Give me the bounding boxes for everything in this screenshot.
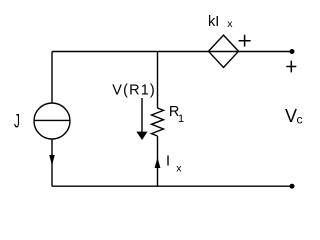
wire bottom rail — [52, 185, 292, 187]
wire left branch upper — [51, 52, 53, 104]
resistor R1 zigzag — [152, 108, 164, 136]
svg-text:V(R1): V(R1) — [112, 82, 156, 98]
dependent source diamond kIx — [209, 35, 239, 67]
wire middle branch lower — [157, 136, 159, 186]
wire middle branch upper — [157, 52, 159, 109]
node dot output top — [290, 49, 295, 54]
voltage arrow V(R1) shaft — [141, 98, 143, 132]
plus sign at dependent source — [239, 35, 251, 47]
wire top rail — [52, 51, 292, 53]
node dot output bottom — [290, 184, 295, 189]
plus sign at output terminal — [286, 61, 296, 73]
current source J circle — [34, 103, 70, 139]
current arrow Ix head — [155, 157, 161, 168]
wire left branch lower — [51, 139, 53, 186]
svg-text:J: J — [14, 112, 20, 132]
svg-text:kI: kI — [208, 14, 219, 30]
svg-text:1: 1 — [178, 113, 184, 125]
svg-text:x: x — [176, 162, 182, 174]
svg-text:x: x — [227, 18, 233, 30]
svg-text:V: V — [285, 106, 297, 126]
voltage arrow V(R1) head — [136, 132, 147, 140]
svg-text:c: c — [297, 112, 303, 126]
svg-text:I: I — [166, 154, 170, 170]
current source J bar — [34, 119, 70, 121]
current arrow of source J head — [49, 155, 55, 165]
